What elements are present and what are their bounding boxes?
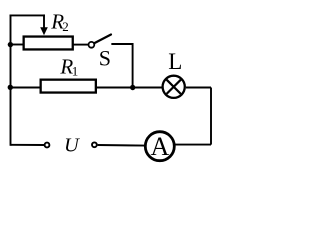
wire left line to R2 (11, 44, 24, 46)
wire terminal2 to ammeter (98, 144, 146, 147)
rheostat R2 body (24, 37, 73, 50)
junction dot at left (rheostat row) (8, 42, 13, 47)
lamp L circle (163, 76, 185, 98)
terminal circle right of U (92, 142, 97, 147)
wire R1 to lamp (97, 87, 163, 89)
wire left line to R1 (10, 87, 40, 89)
junction dot at left (middle row) (8, 85, 13, 90)
wire R2 to switch (74, 44, 89, 46)
junction dot (middle row, below switch) (130, 85, 135, 90)
svg-text:2: 2 (62, 19, 69, 34)
wire slider arrow stem (43, 15, 45, 28)
wire lamp to right line (186, 87, 211, 89)
svg-text:L: L (168, 49, 182, 74)
lamp L cross (167, 80, 181, 94)
switch S blade (94, 35, 111, 44)
wire bottom right segment (175, 144, 212, 146)
resistor R1 body (41, 80, 96, 93)
svg-text:U: U (64, 134, 80, 156)
terminal circle left of U (45, 143, 50, 148)
ammeter A circle (145, 132, 174, 161)
svg-text:S: S (99, 46, 111, 71)
svg-text:A: A (151, 132, 170, 161)
svg-text:1: 1 (72, 64, 79, 79)
wire top horizontal to slider (11, 14, 45, 16)
wire right vertical (210, 88, 212, 145)
slider arrowhead of R2 (40, 27, 48, 35)
switch S pivot circle (89, 42, 95, 48)
wire switch to right corner and down to junction (112, 44, 132, 88)
wire left vertical (10, 15, 12, 144)
wire bottom left segment (11, 144, 45, 146)
